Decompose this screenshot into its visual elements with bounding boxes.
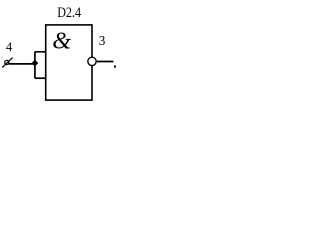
svg-text:&: & [52, 28, 71, 55]
svg-text:3: 3 [99, 33, 106, 48]
svg-text:4: 4 [6, 40, 13, 54]
wire: output line [97, 61, 114, 63]
wire: input from terminal to junction [9, 63, 35, 65]
wire: upper input stub to gate [35, 51, 47, 53]
svg-text:D2.4: D2.4 [57, 5, 81, 21]
wire: vertical tie between both inputs [34, 52, 36, 78]
input terminal (open circle with slash), pin 4 [5, 60, 9, 64]
inversion bubble on output, pin 3 [88, 57, 96, 65]
junction dot (solder point) [32, 60, 39, 67]
wire: lower input stub to gate [35, 77, 47, 79]
gate body U=D2.4 (IEC rectangle) [46, 25, 92, 100]
stray text fragment (period) at right edge [114, 66, 116, 68]
